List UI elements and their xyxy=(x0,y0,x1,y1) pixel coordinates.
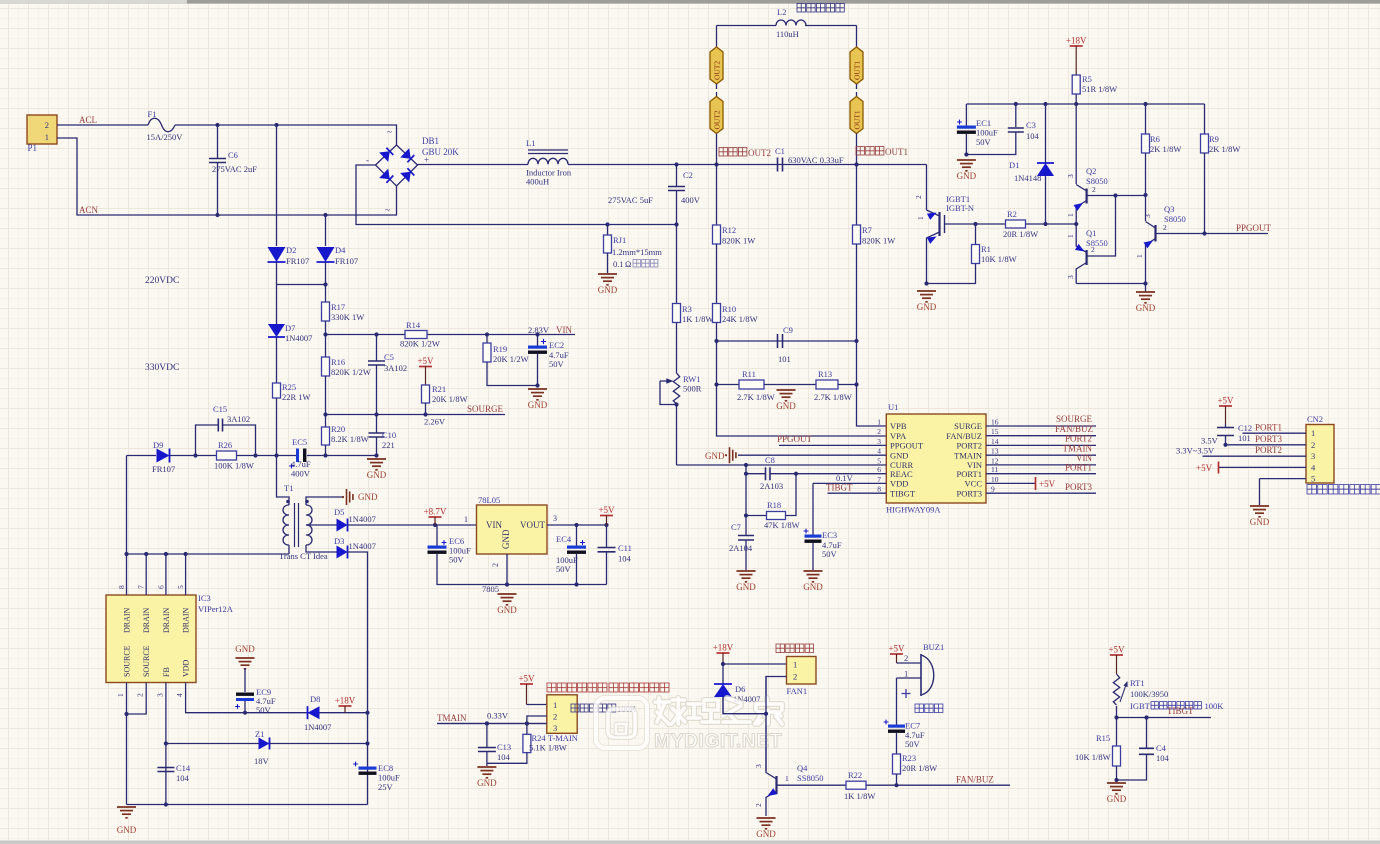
svg-text:7: 7 xyxy=(877,475,881,484)
connector OUT1 stub xyxy=(856,84,858,89)
capacitor C5 xyxy=(376,335,378,362)
IC3 pin 3 wire xyxy=(165,683,167,805)
svg-text:18V: 18V xyxy=(254,756,270,766)
wire T-MAIN pin2 xyxy=(527,716,547,734)
power +18V at fan xyxy=(717,652,730,654)
connector OUT2 stub xyxy=(716,84,718,89)
bridge diode top-right xyxy=(400,148,411,159)
svg-text:C3: C3 xyxy=(1026,120,1036,130)
connector T-MAIN xyxy=(547,695,577,734)
svg-text:3.5V: 3.5V xyxy=(1201,436,1219,446)
svg-text:100K: 100K xyxy=(1205,701,1225,711)
svg-text:FR107: FR107 xyxy=(286,256,309,266)
svg-text:VDD: VDD xyxy=(890,479,908,489)
connector CN2 xyxy=(1306,425,1334,484)
svg-text:+5V: +5V xyxy=(1196,463,1213,473)
CN2 pin2 wire PORT3 xyxy=(1226,444,1307,446)
svg-text:BUZ1: BUZ1 xyxy=(923,642,944,652)
svg-text:R10: R10 xyxy=(722,304,736,314)
power +8.7V xyxy=(429,516,442,518)
svg-text:TIBGT: TIBGT xyxy=(826,483,853,493)
svg-text:FAN/BUZ: FAN/BUZ xyxy=(956,775,994,785)
svg-text:275VAC 5uF: 275VAC 5uF xyxy=(608,195,653,205)
svg-text:GND: GND xyxy=(890,450,908,460)
IC3 pin 8 stub xyxy=(126,554,128,595)
svg-text:50V: 50V xyxy=(549,359,565,369)
wire bottom ground bus xyxy=(127,804,368,806)
svg-text:C13: C13 xyxy=(497,742,511,752)
resistor R3 xyxy=(676,225,678,304)
svg-text:FR107: FR107 xyxy=(335,256,358,266)
wire TMAIN xyxy=(437,723,547,725)
top window bar xyxy=(0,0,1380,4)
svg-text:EC6: EC6 xyxy=(449,536,464,546)
svg-text:2A103: 2A103 xyxy=(760,481,783,491)
zener Z1 xyxy=(166,743,368,745)
capacitor C14 xyxy=(157,768,174,772)
svg-text:1: 1 xyxy=(1066,234,1075,238)
svg-text:6: 6 xyxy=(156,585,165,589)
resistor R9 xyxy=(1204,104,1206,134)
svg-text:PORT3: PORT3 xyxy=(1065,482,1092,492)
capacitor EC4 xyxy=(576,525,578,546)
svg-text:2.7K 1/8W: 2.7K 1/8W xyxy=(814,392,852,402)
capacitor EC6 xyxy=(436,525,438,546)
svg-text:R7: R7 xyxy=(862,225,872,235)
svg-text:400V: 400V xyxy=(681,195,701,205)
svg-text:PORT2: PORT2 xyxy=(1065,434,1092,444)
wire to +18V rail xyxy=(348,552,368,805)
svg-text:F1: F1 xyxy=(148,109,157,119)
bridge diode top-left xyxy=(379,151,390,162)
svg-text:400V: 400V xyxy=(291,469,311,479)
svg-text:SOURGE: SOURGE xyxy=(1056,414,1093,424)
svg-text:+5V: +5V xyxy=(1108,645,1125,655)
svg-text:20R 1/8W: 20R 1/8W xyxy=(1003,229,1038,239)
svg-text:8: 8 xyxy=(877,485,881,494)
ground IGBT emitter xyxy=(917,291,936,302)
svg-text:C12: C12 xyxy=(1238,423,1252,433)
svg-text:D9: D9 xyxy=(153,440,163,450)
svg-text:SS8050: SS8050 xyxy=(797,773,823,783)
transformer T1 xyxy=(277,456,290,506)
resistor R15 xyxy=(1113,746,1121,766)
label thermistor chinese xyxy=(571,704,616,712)
wire SOURGE xyxy=(326,414,506,416)
svg-text:20K 1/8W: 20K 1/8W xyxy=(432,394,468,404)
svg-text:+: + xyxy=(424,155,429,165)
bottom window bar xyxy=(0,841,1380,844)
svg-text:Q1: Q1 xyxy=(1086,228,1096,238)
svg-text:P1: P1 xyxy=(28,143,38,153)
diode D2 xyxy=(276,125,278,246)
svg-text:101: 101 xyxy=(778,354,791,364)
svg-text:R3: R3 xyxy=(682,304,692,314)
power +5V at 78L05 xyxy=(600,515,613,517)
ground below EC1 xyxy=(957,160,976,171)
svg-text:Q2: Q2 xyxy=(1086,166,1096,176)
resistor R24 xyxy=(523,734,531,752)
svg-text:20K 1/2W: 20K 1/2W xyxy=(493,354,529,364)
svg-text:T1: T1 xyxy=(284,483,293,493)
svg-text:51R 1/8W: 51R 1/8W xyxy=(1082,84,1117,94)
svg-text:47K 1/8W: 47K 1/8W xyxy=(764,520,800,530)
svg-text:+18V: +18V xyxy=(713,643,734,653)
ground below RJ1 xyxy=(598,274,617,285)
ground below Q3 xyxy=(1136,292,1155,303)
ground below C10 xyxy=(367,459,386,470)
svg-text:2: 2 xyxy=(754,803,763,807)
svg-text:1: 1 xyxy=(877,418,881,427)
resistor R1 xyxy=(975,224,977,245)
wire +8.7V rail xyxy=(348,524,477,526)
ground below Q4 xyxy=(757,818,776,829)
svg-text:2.7K 1/8W: 2.7K 1/8W xyxy=(737,392,775,402)
svg-text:R23: R23 xyxy=(902,753,916,763)
svg-text:630VAC 0.33uF: 630VAC 0.33uF xyxy=(788,155,844,165)
svg-text:PPGOUT: PPGOUT xyxy=(777,434,813,444)
svg-text:GND: GND xyxy=(497,605,517,615)
svg-text:1.2mm*15mm: 1.2mm*15mm xyxy=(612,247,662,257)
diode D7 xyxy=(276,285,278,325)
svg-text:GND: GND xyxy=(501,529,511,549)
resistor R13 xyxy=(816,380,838,389)
svg-text:OUT1: OUT1 xyxy=(853,61,862,80)
svg-text:EC3: EC3 xyxy=(822,530,837,540)
svg-text:TIBGT: TIBGT xyxy=(890,488,916,498)
svg-text:GND: GND xyxy=(235,644,255,654)
svg-text:-: - xyxy=(366,155,369,165)
svg-text:C4: C4 xyxy=(1156,743,1167,753)
transistor Q2 xyxy=(1075,104,1077,184)
capacitor C4 xyxy=(1146,718,1148,749)
svg-text:8.2K 1/8W: 8.2K 1/8W xyxy=(331,434,369,444)
IC3 pin 7 stub xyxy=(145,554,147,595)
capacitor EC3 xyxy=(812,483,814,534)
svg-text:3A102: 3A102 xyxy=(227,414,250,424)
svg-text:S8550: S8550 xyxy=(1086,238,1108,248)
svg-text:C5: C5 xyxy=(384,352,394,362)
resistor R26 xyxy=(217,451,237,460)
watermark mydigit xyxy=(596,698,782,752)
svg-text:OUT1: OUT1 xyxy=(853,110,862,129)
svg-text:GND: GND xyxy=(736,582,756,592)
power +5V at buzzer xyxy=(890,653,903,655)
wire 78L05 pin2 xyxy=(506,554,508,585)
svg-text:MYDIGIT.NET: MYDIGIT.NET xyxy=(654,730,782,752)
svg-text:C14: C14 xyxy=(176,763,191,773)
svg-text:VIN: VIN xyxy=(486,520,502,530)
svg-text:TMAIN: TMAIN xyxy=(1063,444,1093,454)
connector FAN1 xyxy=(787,657,817,685)
svg-text:1: 1 xyxy=(904,669,908,679)
svg-text:SURGE: SURGE xyxy=(954,421,982,431)
svg-text:2: 2 xyxy=(1091,245,1095,254)
svg-text:HIGHWAY09A: HIGHWAY09A xyxy=(886,505,941,515)
svg-text:104: 104 xyxy=(176,773,190,783)
svg-text:SOURCE: SOURCE xyxy=(142,645,151,677)
fuse F1 xyxy=(148,118,175,132)
svg-text:R19: R19 xyxy=(493,344,507,354)
ground below 78L05 xyxy=(498,594,517,605)
svg-text:1: 1 xyxy=(464,515,468,524)
resistor R12 xyxy=(716,165,718,226)
buzzer BUZ1 xyxy=(897,662,922,664)
svg-text:~: ~ xyxy=(387,127,392,137)
svg-text:4.7uF: 4.7uF xyxy=(291,459,311,469)
svg-text:820K 1/2W: 820K 1/2W xyxy=(331,367,371,377)
svg-text:D4: D4 xyxy=(335,245,346,255)
svg-text:+5V: +5V xyxy=(1039,479,1056,489)
svg-text:GND: GND xyxy=(117,825,137,835)
svg-text:+5V: +5V xyxy=(888,644,905,654)
svg-text:PORT2: PORT2 xyxy=(957,441,982,451)
resistor R10 xyxy=(716,244,718,304)
capacitor C13 xyxy=(486,724,488,748)
svg-text:D7: D7 xyxy=(285,323,295,333)
transistor Q3 xyxy=(1145,196,1147,222)
ground sideways U1 xyxy=(730,447,736,463)
svg-text:R24: R24 xyxy=(532,733,547,743)
svg-text:R16: R16 xyxy=(331,357,345,367)
U1 pin5 CURR wire xyxy=(677,464,887,466)
capacitor EC1 xyxy=(965,104,967,126)
svg-text:3: 3 xyxy=(553,514,557,523)
svg-text:2.83V: 2.83V xyxy=(528,325,550,335)
connector OUT2 lower xyxy=(710,97,723,134)
wire 330V aux xyxy=(127,455,157,457)
svg-text:DRAIN: DRAIN xyxy=(123,607,132,633)
svg-text:+5V: +5V xyxy=(417,356,434,366)
svg-text:GND: GND xyxy=(705,451,725,461)
IC3 pin 4 wire xyxy=(186,683,368,713)
ground sideways T1 xyxy=(347,489,353,505)
svg-text:+8.7V: +8.7V xyxy=(424,507,447,517)
svg-text:15: 15 xyxy=(991,427,999,436)
capacitor C3 xyxy=(1015,104,1017,127)
wire ACL xyxy=(57,124,148,126)
power +5V at C12 xyxy=(1219,405,1232,407)
svg-text:R11: R11 xyxy=(742,369,756,379)
svg-text:D1: D1 xyxy=(1009,160,1019,170)
svg-text:3: 3 xyxy=(754,764,763,768)
svg-text:820K 1W: 820K 1W xyxy=(722,236,755,246)
svg-text:9: 9 xyxy=(991,485,995,494)
svg-text:EC4: EC4 xyxy=(556,534,572,544)
svg-text:330K 1W: 330K 1W xyxy=(331,312,364,322)
svg-text:EC2: EC2 xyxy=(549,340,564,350)
transistor IGBT1 xyxy=(926,165,928,211)
svg-text:C10: C10 xyxy=(382,430,396,440)
svg-text:FAN/BUZ: FAN/BUZ xyxy=(946,431,982,441)
svg-text:PORT1: PORT1 xyxy=(1255,423,1282,433)
svg-text:3: 3 xyxy=(1066,174,1075,178)
svg-text:TMAIN: TMAIN xyxy=(437,713,467,723)
resistor R20 xyxy=(325,415,327,428)
svg-text:+5V: +5V xyxy=(598,505,615,515)
svg-text:50V: 50V xyxy=(976,137,992,147)
wire driver gnd xyxy=(1076,283,1145,285)
svg-text:OUT1: OUT1 xyxy=(885,147,908,157)
svg-text:L2: L2 xyxy=(777,7,786,17)
wire 18V bus xyxy=(966,103,1204,105)
wire fan node xyxy=(723,663,787,665)
bridge rectifier DB1 xyxy=(376,145,418,186)
svg-text:2: 2 xyxy=(877,427,881,436)
capacitor EC2 xyxy=(537,335,539,346)
svg-text:OUT2: OUT2 xyxy=(713,61,722,80)
capacitor C7 xyxy=(745,516,747,536)
svg-text:2: 2 xyxy=(491,563,500,567)
node OUT1 label xyxy=(856,147,884,156)
wire to VIPer drain bus xyxy=(126,456,128,555)
svg-text:1: 1 xyxy=(785,774,789,783)
node 220VDC xyxy=(277,284,326,286)
label heater coil chinese xyxy=(797,4,844,13)
svg-text:DRAIN: DRAIN xyxy=(142,607,151,633)
svg-text:OUT2: OUT2 xyxy=(748,148,771,158)
resistor R17 xyxy=(325,285,327,303)
inductor L1 xyxy=(528,150,568,154)
svg-text:R20: R20 xyxy=(331,424,345,434)
IC U1 HIGHWAY09A xyxy=(886,414,986,503)
svg-text:R25: R25 xyxy=(282,382,296,392)
svg-text:RW1: RW1 xyxy=(683,374,700,384)
svg-text:2: 2 xyxy=(136,693,145,697)
svg-text:5: 5 xyxy=(877,456,881,465)
svg-text:22R 1W: 22R 1W xyxy=(282,392,311,402)
svg-text:IGBT: IGBT xyxy=(1130,701,1151,711)
svg-text:R13: R13 xyxy=(818,369,832,379)
IC3 pin 5 stub xyxy=(185,554,187,595)
svg-text:0.1V: 0.1V xyxy=(836,473,854,483)
svg-text:2.26V: 2.26V xyxy=(424,417,446,427)
svg-text:275VAC 2uF: 275VAC 2uF xyxy=(212,164,257,174)
svg-text:100uF: 100uF xyxy=(976,128,998,138)
CN2 pin5 wire gnd xyxy=(1260,478,1307,480)
svg-text:3A102: 3A102 xyxy=(384,363,407,373)
svg-text:R9: R9 xyxy=(1209,134,1219,144)
svg-text:1: 1 xyxy=(45,132,49,142)
svg-text:Q3: Q3 xyxy=(1164,204,1174,214)
diode D1 xyxy=(1045,104,1047,163)
node OUT2 label xyxy=(719,148,747,157)
svg-text:R12: R12 xyxy=(722,225,736,235)
wire IGBT gate xyxy=(945,223,976,225)
svg-text:4: 4 xyxy=(877,447,881,456)
svg-text:D5: D5 xyxy=(334,507,344,517)
inductor L2 heater coil xyxy=(717,25,777,27)
svg-text:3: 3 xyxy=(1066,275,1075,279)
ground below R15 xyxy=(1107,783,1126,794)
svg-text:S8050: S8050 xyxy=(1086,176,1108,186)
wire VPA node xyxy=(716,341,718,385)
svg-text:IC3: IC3 xyxy=(198,593,211,603)
svg-text:GND: GND xyxy=(1107,794,1127,804)
label buzzer chinese xyxy=(915,704,943,713)
svg-text:Ω: Ω xyxy=(625,259,631,269)
svg-text:PORT1: PORT1 xyxy=(957,469,982,479)
svg-text:2: 2 xyxy=(1163,223,1167,232)
svg-text:1K 1/8W: 1K 1/8W xyxy=(682,314,713,324)
svg-text:4: 4 xyxy=(175,693,184,697)
U1 pin3 PPGOUT wire xyxy=(779,444,886,446)
capacitor C10 xyxy=(376,415,378,434)
svg-text:5: 5 xyxy=(1311,474,1315,484)
svg-text:R2: R2 xyxy=(1007,209,1017,219)
wire DC plus xyxy=(418,164,529,166)
wire 78L05 pin3 xyxy=(547,524,607,526)
svg-text:3: 3 xyxy=(155,693,164,697)
svg-text:C15: C15 xyxy=(213,404,227,414)
capacitor C15 loop xyxy=(196,425,219,456)
svg-text:R5: R5 xyxy=(1082,74,1092,84)
capacitor EC7 xyxy=(896,678,898,725)
svg-text:C6: C6 xyxy=(228,150,238,160)
svg-text:EC8: EC8 xyxy=(378,763,393,773)
svg-text:D3: D3 xyxy=(334,536,344,546)
IC3 pin 6 stub xyxy=(165,554,167,595)
svg-text:14: 14 xyxy=(991,437,999,446)
svg-text:GND: GND xyxy=(803,582,823,592)
power +5V at RT1 xyxy=(1110,654,1123,656)
svg-text:DRAIN: DRAIN xyxy=(162,607,171,633)
svg-text:8: 8 xyxy=(117,585,126,589)
svg-text:GND: GND xyxy=(477,778,497,788)
svg-text:D6: D6 xyxy=(735,684,745,694)
svg-text:D2: D2 xyxy=(286,245,296,255)
svg-text:1N4007: 1N4007 xyxy=(304,722,331,732)
svg-text:R1: R1 xyxy=(981,244,991,254)
resistor R16 xyxy=(325,335,327,358)
svg-text:50V: 50V xyxy=(449,555,465,565)
svg-text:S8050: S8050 xyxy=(1164,214,1186,224)
svg-text:24K 1/8W: 24K 1/8W xyxy=(722,314,758,324)
svg-text:2K 1/8W: 2K 1/8W xyxy=(1150,144,1181,154)
svg-text:104: 104 xyxy=(1026,131,1040,141)
svg-text:15A/250V: 15A/250V xyxy=(147,132,184,142)
svg-text:104: 104 xyxy=(1156,753,1170,763)
svg-text:1N4007: 1N4007 xyxy=(349,541,376,551)
svg-text:VPB: VPB xyxy=(890,421,907,431)
connector OUT2 upper xyxy=(716,26,718,48)
svg-text:3: 3 xyxy=(1311,451,1315,461)
ground below CN2 xyxy=(1250,506,1269,517)
svg-text:50V: 50V xyxy=(256,705,272,715)
svg-text:100K/3950: 100K/3950 xyxy=(1130,689,1168,699)
resistor R5 xyxy=(1072,75,1080,94)
svg-text:1: 1 xyxy=(793,660,797,670)
svg-text:20R 1/8W: 20R 1/8W xyxy=(902,763,937,773)
svg-text:VDD: VDD xyxy=(182,659,191,677)
wire PPGOUT out xyxy=(1205,233,1269,235)
svg-text:2: 2 xyxy=(793,672,797,682)
svg-text:GND: GND xyxy=(1250,517,1270,527)
svg-text:78L05: 78L05 xyxy=(478,495,500,505)
diode D6 xyxy=(722,664,724,684)
wire ACN xyxy=(57,138,397,215)
svg-text:1K 1/8W: 1K 1/8W xyxy=(844,791,875,801)
resistor R6 xyxy=(1145,104,1147,134)
svg-text:2: 2 xyxy=(1311,440,1315,450)
svg-text:VIN: VIN xyxy=(556,325,572,335)
svg-text:3.3V~3.5V: 3.3V~3.5V xyxy=(1176,446,1215,456)
svg-text:R6: R6 xyxy=(1150,134,1160,144)
diode D8 xyxy=(308,706,320,719)
U1 pin10 +5V stub xyxy=(986,482,1035,484)
capacitor C2 xyxy=(676,165,678,187)
svg-text:104: 104 xyxy=(618,554,632,564)
